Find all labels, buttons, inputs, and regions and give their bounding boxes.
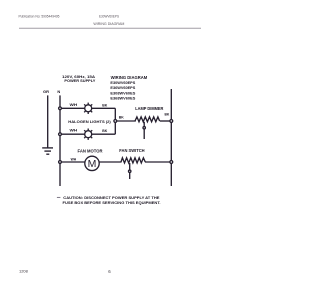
wire dimmer input — [115, 120, 136, 122]
svg-text:WH: WH — [70, 102, 78, 107]
svg-text:N: N — [57, 89, 60, 94]
wire dimmer output — [160, 120, 172, 122]
svg-text:6: 6 — [108, 269, 111, 274]
wire GR rail — [47, 95, 49, 147]
fan switch resistive element — [121, 158, 145, 163]
wire lamp row 2 left — [60, 133, 85, 135]
wire L rail — [170, 89, 172, 186]
wire lamp row 1 left — [60, 107, 85, 109]
svg-text:HALOGEN LIGHTS (2): HALOGEN LIGHTS (2) — [68, 119, 111, 124]
svg-text:E30WV60EPS: E30WV60EPS — [99, 14, 120, 18]
fan switch wiper — [129, 163, 131, 179]
svg-text:Publication No: 5995449495: Publication No: 5995449495 — [19, 15, 60, 19]
junction L fan — [170, 161, 173, 164]
wire fan row mid — [99, 161, 121, 163]
caution note leading dash — [57, 196, 61, 198]
svg-text:WH: WH — [70, 128, 78, 133]
wire fan row right — [145, 161, 171, 163]
svg-text:GR: GR — [43, 89, 49, 94]
svg-text:LAMP DIMMER: LAMP DIMMER — [135, 106, 163, 111]
svg-text:WIRING DIAGRAM: WIRING DIAGRAM — [93, 22, 124, 26]
svg-text:M: M — [88, 158, 97, 170]
motor M1 — [85, 156, 99, 170]
svg-text:BK: BK — [165, 112, 170, 117]
svg-text:BK: BK — [102, 102, 107, 107]
wire N rail — [59, 95, 61, 186]
svg-text:E368WV60ES: E368WV60ES — [110, 96, 135, 101]
junction L dimmer — [170, 120, 173, 123]
ground symbol — [42, 148, 53, 154]
wire fan row left — [60, 161, 85, 163]
svg-text:BK: BK — [102, 128, 107, 133]
lamp DL2 — [84, 129, 92, 140]
svg-text:FAN SWITCH: FAN SWITCH — [119, 148, 144, 153]
junction tie dimmer — [114, 120, 117, 123]
junction N fan — [59, 161, 62, 164]
wire lamp row 1 right — [92, 107, 116, 109]
junction N lamp2 — [59, 133, 62, 136]
wire lamp row 2 right — [92, 133, 116, 135]
wire lamp tie vertical — [114, 108, 116, 134]
svg-text:FUSE BOX BEFORE SERVICING THIS: FUSE BOX BEFORE SERVICING THIS EQUIPMENT… — [63, 200, 161, 205]
svg-text:FAN MOTOR: FAN MOTOR — [78, 148, 103, 153]
svg-text:BK: BK — [119, 115, 124, 120]
svg-text:POWER SUPPLY: POWER SUPPLY — [64, 78, 95, 83]
header rule — [19, 27, 201, 29]
lamp dimmer resistive element — [135, 117, 160, 122]
svg-text:1208: 1208 — [19, 269, 28, 273]
junction N lamp1 — [59, 107, 62, 110]
lamp dimmer wiper — [143, 122, 145, 139]
svg-text:WH: WH — [71, 157, 77, 162]
lamp DL1 — [84, 103, 92, 114]
